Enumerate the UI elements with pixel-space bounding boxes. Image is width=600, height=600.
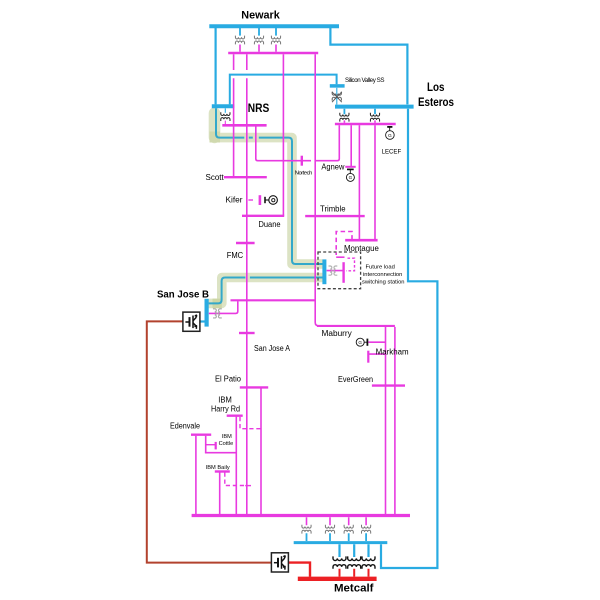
wire Newark 115 long feeder to south bus <box>246 54 248 514</box>
green highlight path NRS to future switching station <box>214 113 323 264</box>
svg-text:IBM Baily: IBM Baily <box>206 465 230 471</box>
svg-text:Montague: Montague <box>344 244 379 253</box>
Markham bus tick <box>367 351 369 363</box>
Los Esteros 230kV bus <box>335 105 414 109</box>
tie tick at feeder <box>245 485 251 487</box>
wire Los Esteros south loop to Metcalf <box>381 109 437 568</box>
svg-text:Los: Los <box>427 82 445 94</box>
future load interconnection switching station dashed box <box>318 252 361 289</box>
transformer Metcalf 500/230 T1 <box>333 556 346 568</box>
wire transformer stubs above Metcalf 230 bus <box>307 533 367 541</box>
svg-text:G: G <box>358 340 362 345</box>
svg-text:EverGreen: EverGreen <box>338 375 373 384</box>
svg-text:Harry Rd: Harry Rd <box>211 404 240 413</box>
svg-text:Silicon Valley SS: Silicon Valley SS <box>345 77 385 84</box>
Kifer condenser stub <box>265 199 269 201</box>
HVDC line San Jose B to Metcalf <box>147 321 272 562</box>
solid jog below dashed lead <box>336 256 344 258</box>
future station capacitor bar <box>342 262 344 283</box>
generator LECEF unit tick <box>387 126 392 128</box>
green overlap corner at San Jose B <box>213 299 222 309</box>
Kifer stub <box>248 199 253 201</box>
wire San Jose B to Maburry <box>231 299 316 301</box>
svg-text:El Patio: El Patio <box>215 375 242 384</box>
wire NRS to future station (new line) <box>216 108 244 137</box>
svg-text:Duane: Duane <box>259 220 282 229</box>
wire transformer stubs to Newark 115 bus <box>240 45 276 52</box>
wire future station to San Jose B (new line) <box>250 277 323 279</box>
Trimble bus <box>305 215 365 217</box>
svg-text:Newark: Newark <box>241 9 280 21</box>
green overlap corner at NRS <box>210 132 221 143</box>
svg-text:Scott: Scott <box>206 173 225 182</box>
wire Edenvale loop bottom <box>205 452 236 454</box>
Los Esteros 115kV bus <box>335 123 396 126</box>
svg-text:Maburry: Maburry <box>322 329 352 338</box>
wire NRS to Silicon Valley SS <box>230 75 337 105</box>
wire Maburry to south bus <box>385 327 387 515</box>
svg-text:San Jose A: San Jose A <box>254 344 291 353</box>
wire continuing to future station <box>259 138 323 264</box>
svg-text:NRS: NRS <box>248 103 270 115</box>
transformer NRS <box>224 108 226 113</box>
transformer San Jose B 230/115 <box>213 309 222 318</box>
El Patio bus <box>240 386 268 388</box>
generator Agnew circle <box>346 173 354 181</box>
Silicon Valley SS bus <box>330 84 345 88</box>
wire Metcalf 230 bus to 500kV transformers <box>340 544 369 557</box>
wire El Patio to south bus <box>260 388 262 514</box>
generator Agnew tick <box>345 166 355 168</box>
wire Newark bus to transformers <box>240 28 276 36</box>
Scott bus <box>224 176 267 178</box>
svg-text:IBM: IBM <box>218 396 232 405</box>
svg-text:interconnection: interconnection <box>363 272 402 278</box>
San Jose A bus tick <box>239 332 255 334</box>
IBM Cottle bus tick <box>215 442 217 450</box>
transformer Newark T3 <box>271 36 280 45</box>
Metcalf 500kV bus <box>298 577 377 581</box>
future switching station 230kV bus <box>322 259 326 284</box>
Duane bus <box>242 215 284 217</box>
red stubs 500kV transformers <box>340 569 369 577</box>
IBM Bailly bus <box>215 470 230 472</box>
wire Los Esteros bus to transformers <box>344 109 375 114</box>
wire LE transformers to 115 bus <box>344 120 375 122</box>
Newark 230kV bus <box>209 24 339 28</box>
svg-text:G: G <box>349 175 353 180</box>
wire Agnew generator <box>350 125 352 166</box>
dashed Montague to future station <box>336 232 352 256</box>
wire Markham lead <box>368 353 385 355</box>
wire Newark bus right end to Los Esteros <box>330 28 407 104</box>
FMC bus <box>236 242 255 244</box>
wire LE 115 to Montague <box>358 125 360 239</box>
red line converter to Metcalf 500 bus <box>288 563 310 577</box>
green highlight path future switching station to San Jose B <box>208 278 322 304</box>
wire Maburry generator lead <box>368 341 385 343</box>
transformer Metcalf 500/230 T2 <box>348 556 361 568</box>
svg-text:IBM: IBM <box>222 434 232 440</box>
wire NRS to Nortech <box>256 127 311 161</box>
svg-text:LECEF: LECEF <box>382 148 402 155</box>
svg-text:Kifer: Kifer <box>226 196 243 205</box>
wire IBM Bailly to south bus <box>219 473 221 515</box>
wire SVSS transformer to Los Esteros bus <box>336 88 338 105</box>
Kifer condenser circles <box>269 196 278 205</box>
Edenvale bus <box>191 434 211 436</box>
Metcalf 230kV bus <box>294 541 388 544</box>
wire Newark 115 to Scott <box>233 54 235 177</box>
wire Newark 115 to Maburry <box>315 54 319 326</box>
svg-text:Future load: Future load <box>366 264 395 270</box>
transformer Metcalf 230/115 T4 <box>362 525 371 534</box>
Nortech bus tick <box>301 156 303 166</box>
wire Maburry to south bus 2 <box>394 327 396 515</box>
transformer Metcalf 500/230 T3 <box>362 556 375 568</box>
wire Edenvale to IBM Cottle <box>205 436 207 453</box>
wire LE 115 to Montague 2 <box>374 125 376 239</box>
EverGreen bus <box>372 384 405 386</box>
generator Maburry bar <box>366 339 368 346</box>
wire San Jose B transformer lead <box>209 301 238 313</box>
transformer Metcalf 230/115 T1 <box>302 525 311 534</box>
future station magenta lead <box>327 270 344 272</box>
wire Edenvale to south bus <box>195 436 197 515</box>
wire segment <box>209 278 246 304</box>
converter station Metcalf <box>271 553 288 572</box>
transformer Los Esteros T1 <box>340 113 349 122</box>
generator Maburry circle <box>356 338 364 346</box>
svg-text:San Jose B: San Jose B <box>157 288 209 300</box>
wire Newark 115 to Duane <box>282 54 284 216</box>
wire Newark bus to NRS bus <box>215 28 217 104</box>
wire Agnew feeder <box>315 125 340 161</box>
San Jose B 230kV bus <box>205 299 209 327</box>
transformer Newark T2 <box>254 36 263 45</box>
wire IBM Harry Rd to Edenvale loop <box>235 417 237 515</box>
svg-text:switching station: switching station <box>362 279 405 285</box>
svg-text:Markham: Markham <box>376 347 409 356</box>
Montague bus <box>345 239 377 242</box>
transformer future station <box>329 266 338 275</box>
generator LECEF circle <box>386 131 395 140</box>
dashed future tie IBM Bailly <box>225 473 244 486</box>
svg-text:Metcalf: Metcalf <box>334 583 374 595</box>
transformer Newark T1 <box>235 36 244 45</box>
svg-text:G: G <box>388 133 392 139</box>
Newark 115kV bus <box>228 52 318 55</box>
dashed loop to capacitor <box>346 258 355 271</box>
NRS 115kV bus <box>222 124 266 127</box>
south 115kV bus <box>192 514 410 517</box>
transformer Los Esteros T2 <box>370 113 379 122</box>
Maburry bus <box>317 325 395 327</box>
dashed future tie IBM Harry Rd <box>240 417 261 429</box>
svg-text:Trimble: Trimble <box>320 205 346 214</box>
Kifer condenser bar <box>264 197 266 203</box>
NRS 230kV bus <box>212 104 235 108</box>
svg-text:Edenvale: Edenvale <box>170 421 200 430</box>
transformer Metcalf 230/115 T3 <box>344 525 353 534</box>
svg-text:FMC: FMC <box>227 251 244 260</box>
transformer Metcalf 230/115 T2 <box>325 525 334 534</box>
wire converter to San Jose B bus <box>200 320 205 322</box>
wire dash segment <box>249 137 253 139</box>
IBM Harry Rd bus <box>227 415 243 417</box>
svg-text:Cottle: Cottle <box>219 441 234 447</box>
svg-text:Agnew: Agnew <box>321 163 344 172</box>
svg-text:Esteros: Esteros <box>418 97 454 109</box>
wire south bus to Metcalf transformers <box>307 517 367 525</box>
converter station San Jose B <box>183 312 200 331</box>
IBM Cottle tap <box>206 444 216 446</box>
transformer Silicon Valley SS (phase shifter) <box>332 92 341 101</box>
svg-text:Nortech: Nortech <box>295 171 313 177</box>
Kifer capacitor bar <box>259 195 262 205</box>
